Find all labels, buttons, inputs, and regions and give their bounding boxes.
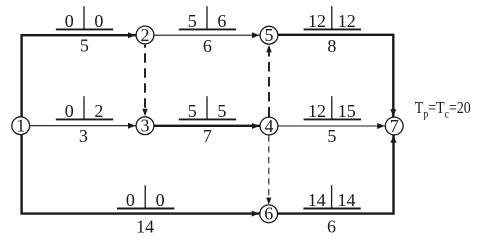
svg-text:2: 2 (141, 25, 150, 45)
svg-text:8: 8 (327, 36, 336, 56)
svg-text:7: 7 (203, 126, 212, 146)
svg-text:0: 0 (65, 101, 74, 121)
svg-text:6: 6 (327, 217, 336, 237)
svg-text:2: 2 (94, 101, 103, 121)
svg-text:3: 3 (141, 116, 150, 136)
svg-text:5: 5 (217, 101, 226, 121)
svg-text:14: 14 (308, 190, 326, 210)
svg-text:6: 6 (264, 204, 273, 224)
svg-text:6: 6 (203, 36, 212, 56)
svg-text:0: 0 (94, 11, 103, 31)
svg-text:7: 7 (390, 116, 399, 136)
svg-text:14: 14 (136, 217, 154, 237)
svg-text:0: 0 (65, 11, 74, 31)
svg-text:5: 5 (188, 11, 197, 31)
svg-text:12: 12 (308, 11, 326, 31)
svg-text:0: 0 (126, 190, 135, 210)
svg-text:3: 3 (79, 126, 88, 146)
svg-text:5: 5 (188, 101, 197, 121)
svg-text:4: 4 (265, 116, 274, 136)
svg-text:1: 1 (16, 116, 25, 136)
svg-text:0: 0 (156, 190, 165, 210)
svg-text:6: 6 (217, 11, 226, 31)
svg-text:12: 12 (338, 11, 356, 31)
svg-text:12: 12 (308, 101, 326, 121)
svg-text:5: 5 (265, 25, 274, 45)
svg-text:5: 5 (80, 36, 89, 56)
svg-text:14: 14 (338, 190, 356, 210)
svg-text:15: 15 (338, 101, 356, 121)
svg-text:5: 5 (327, 126, 336, 146)
